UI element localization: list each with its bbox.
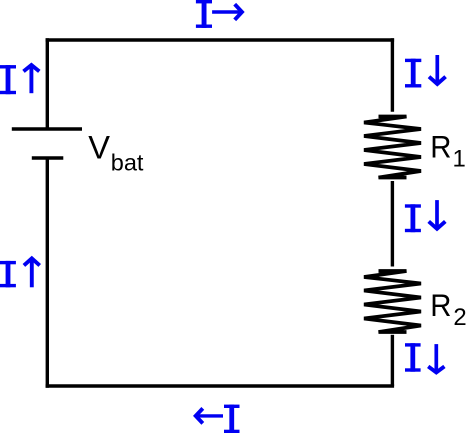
wire left vertical lower (battery to bottom) xyxy=(46,158,49,388)
wire right vertical lower (R2 to bottom) xyxy=(391,335,394,386)
battery V_bat short plate xyxy=(32,156,64,159)
svg-text:2: 2 xyxy=(453,304,466,331)
battery V_bat long plate xyxy=(12,127,82,130)
current label I (upper left) xyxy=(0,65,16,94)
current arrow down (lower right) xyxy=(428,344,444,372)
current arrow down (middle right) xyxy=(429,200,446,229)
wire right vertical upper (to R1) xyxy=(391,38,394,112)
current label I (lower left) xyxy=(0,261,16,287)
svg-text:R: R xyxy=(430,287,451,323)
svg-text:V: V xyxy=(88,129,110,166)
current arrow left (bottom) xyxy=(196,408,223,423)
wire top horizontal xyxy=(46,38,395,41)
current label I (lower right) xyxy=(405,343,421,372)
wire left vertical upper (to battery) xyxy=(46,38,49,129)
svg-text:bat: bat xyxy=(111,150,144,176)
current label I (middle right) xyxy=(405,204,421,232)
current arrow right (top) xyxy=(212,4,242,20)
current arrow up (upper left) xyxy=(24,65,40,93)
svg-text:1: 1 xyxy=(453,145,466,172)
current label I (upper right) xyxy=(405,59,421,88)
resistor R2 xyxy=(364,271,421,332)
current label I (top) xyxy=(196,0,212,28)
wire right vertical middle (R1 to R2) xyxy=(391,181,394,267)
current arrow down (upper right) xyxy=(429,55,446,84)
wire bottom horizontal xyxy=(46,384,395,387)
resistor R1 xyxy=(364,117,421,178)
current arrow up (lower left) xyxy=(24,258,40,287)
svg-text:R: R xyxy=(430,129,451,165)
current label I (bottom) xyxy=(224,405,240,433)
